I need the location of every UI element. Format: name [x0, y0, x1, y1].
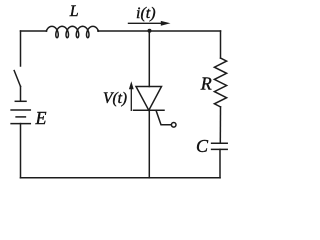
resistor R zigzag — [214, 58, 226, 107]
wire top-left horizontal (corner to inductor) — [21, 30, 47, 32]
wire right vertical (top corner to resistor) — [220, 31, 222, 58]
wire switch to battery — [20, 86, 22, 100]
switch (open blade) — [14, 71, 20, 87]
svg-text:R: R — [200, 74, 212, 94]
thyristor U1 — [134, 87, 177, 128]
wire top horizontal (inductor to node) — [98, 30, 150, 32]
wire node to thyristor anode — [148, 31, 150, 87]
inductor L — [46, 26, 98, 37]
wire left vertical (top corner to switch) — [20, 31, 22, 66]
wire capacitor to bottom-right corner — [219, 149, 221, 177]
wire resistor to capacitor — [219, 107, 221, 143]
wire thyristor cathode to bottom — [148, 110, 150, 178]
svg-text:V(t): V(t) — [103, 90, 127, 107]
current arrow i(t) — [128, 21, 171, 26]
svg-text:L: L — [69, 3, 79, 20]
wire top horizontal (node to right corner) — [150, 30, 221, 32]
battery E — [11, 101, 30, 123]
svg-text:C: C — [196, 136, 209, 156]
capacitor C plates — [212, 143, 228, 149]
svg-text:E: E — [35, 108, 47, 128]
svg-text:i(t): i(t) — [136, 5, 156, 22]
wire battery to bottom-left corner — [20, 124, 22, 178]
wire bottom horizontal — [21, 177, 221, 179]
voltage arrow V(t) — [129, 81, 134, 111]
node junction dot — [148, 29, 152, 33]
